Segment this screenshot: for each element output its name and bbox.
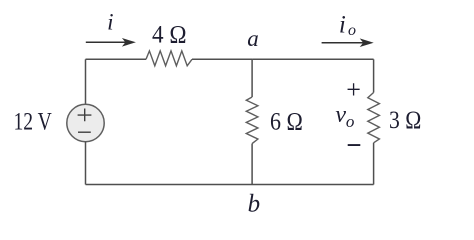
svg-text:3 Ω: 3 Ω — [389, 105, 421, 134]
svg-text:b: b — [248, 191, 261, 218]
label: current io — [339, 12, 356, 39]
current arrow i (top left) — [86, 38, 136, 47]
resistor 3 ohm (right, vertical zigzag) — [368, 93, 380, 143]
current arrow io (top right) — [322, 38, 374, 47]
plus sign inside source — [78, 109, 92, 122]
label: vo voltage — [335, 102, 354, 131]
wire: left side, voltage source down to bottom-left corner — [85, 141, 87, 184]
minus sign inside source — [78, 131, 91, 133]
svg-text:i: i — [339, 12, 346, 39]
svg-text:+: + — [346, 75, 361, 104]
svg-text:12 V: 12 V — [14, 107, 53, 136]
wire: right side from top-right corner down to 3-ohm resistor — [373, 59, 375, 92]
voltage source 12 V (independent source circle) — [67, 104, 104, 141]
svg-text:4 Ω: 4 Ω — [152, 19, 187, 48]
wire: middle branch from node a down to 6-ohm resistor — [251, 59, 253, 97]
svg-text:6 Ω: 6 Ω — [270, 107, 303, 136]
wire: right side from 3-ohm resistor down to bottom-right corner — [373, 143, 375, 185]
svg-text:a: a — [247, 26, 258, 51]
wire: top segment from 4-ohm resistor to node a — [192, 58, 252, 60]
svg-text:v: v — [335, 102, 346, 128]
wire: left side, top corner down to voltage source — [85, 59, 87, 104]
svg-text:o: o — [346, 112, 355, 131]
svg-text:o: o — [348, 22, 356, 39]
label: minus polarity of vo — [348, 144, 361, 146]
wire: middle branch from 6-ohm resistor down to node b — [251, 144, 253, 185]
wire: bottom rail — [86, 184, 374, 186]
resistor 4 ohm (top, horizontal zigzag) — [146, 51, 192, 66]
wire: top segment from node a to top-right corner — [252, 58, 374, 60]
svg-text:i: i — [107, 9, 113, 34]
resistor 6 ohm (middle, vertical zigzag) — [246, 97, 258, 144]
wire: top-left segment from left corner to 4-ohm resistor — [86, 58, 147, 60]
